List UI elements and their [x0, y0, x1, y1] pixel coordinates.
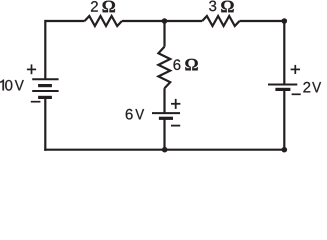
- label V2 value 6 V: [126, 109, 144, 120]
- node D junction dot (bottom right): [282, 147, 288, 153]
- wire battery V2 to node C: [163, 118, 165, 149]
- wire right branch upper: [283, 21, 285, 85]
- label R3 value 6 Ω: [174, 59, 198, 71]
- battery V1 short plate 2: [38, 96, 52, 99]
- wire left branch upper: [44, 20, 46, 79]
- battery V2 6V plates: [152, 113, 180, 118]
- battery V2 plus sign: [171, 99, 180, 109]
- resistor R3 6Ω zigzag: [158, 47, 170, 89]
- battery V2 long plate: [152, 112, 180, 114]
- wire R2 to node B: [240, 20, 285, 22]
- wire middle branch upper: [163, 21, 165, 47]
- battery V1 long plate 2: [32, 90, 58, 92]
- battery V1 long plate 1: [32, 78, 58, 80]
- wire left branch lower: [44, 97, 46, 150]
- wire right branch lower: [283, 89, 285, 149]
- wire R1 to node A: [122, 20, 165, 22]
- resistor R2 3Ω zigzag: [202, 16, 239, 26]
- battery V3 2V plates: [268, 85, 297, 90]
- label R2 value 3 Ω: [209, 1, 234, 13]
- battery V3 minus sign: [292, 93, 301, 95]
- node B junction dot (top right): [282, 18, 288, 24]
- label V3 value 2 V: [303, 82, 321, 92]
- node C junction dot (bottom middle): [162, 147, 168, 153]
- battery V1 plus sign: [27, 64, 36, 74]
- label R1 value 2 Ω: [91, 1, 115, 13]
- battery V1 10V plates: [32, 79, 58, 97]
- label V1 value 10 V: [0, 80, 24, 91]
- battery V2 short plate: [159, 117, 173, 120]
- battery V2 minus sign: [171, 125, 180, 127]
- battery V1 short plate 1: [38, 84, 52, 87]
- battery V3 plus sign: [291, 65, 300, 74]
- node A junction dot (top middle): [162, 18, 168, 24]
- wire top-left segment: [45, 20, 84, 22]
- wire node A to R2: [165, 20, 203, 22]
- resistor R1 2Ω zigzag: [85, 16, 122, 26]
- battery V1 minus sign: [31, 101, 41, 103]
- battery V3 short plate: [275, 88, 290, 91]
- wire bottom rail: [44, 149, 284, 151]
- battery V3 long plate: [268, 84, 297, 86]
- wire R3 to battery V2: [163, 88, 165, 113]
